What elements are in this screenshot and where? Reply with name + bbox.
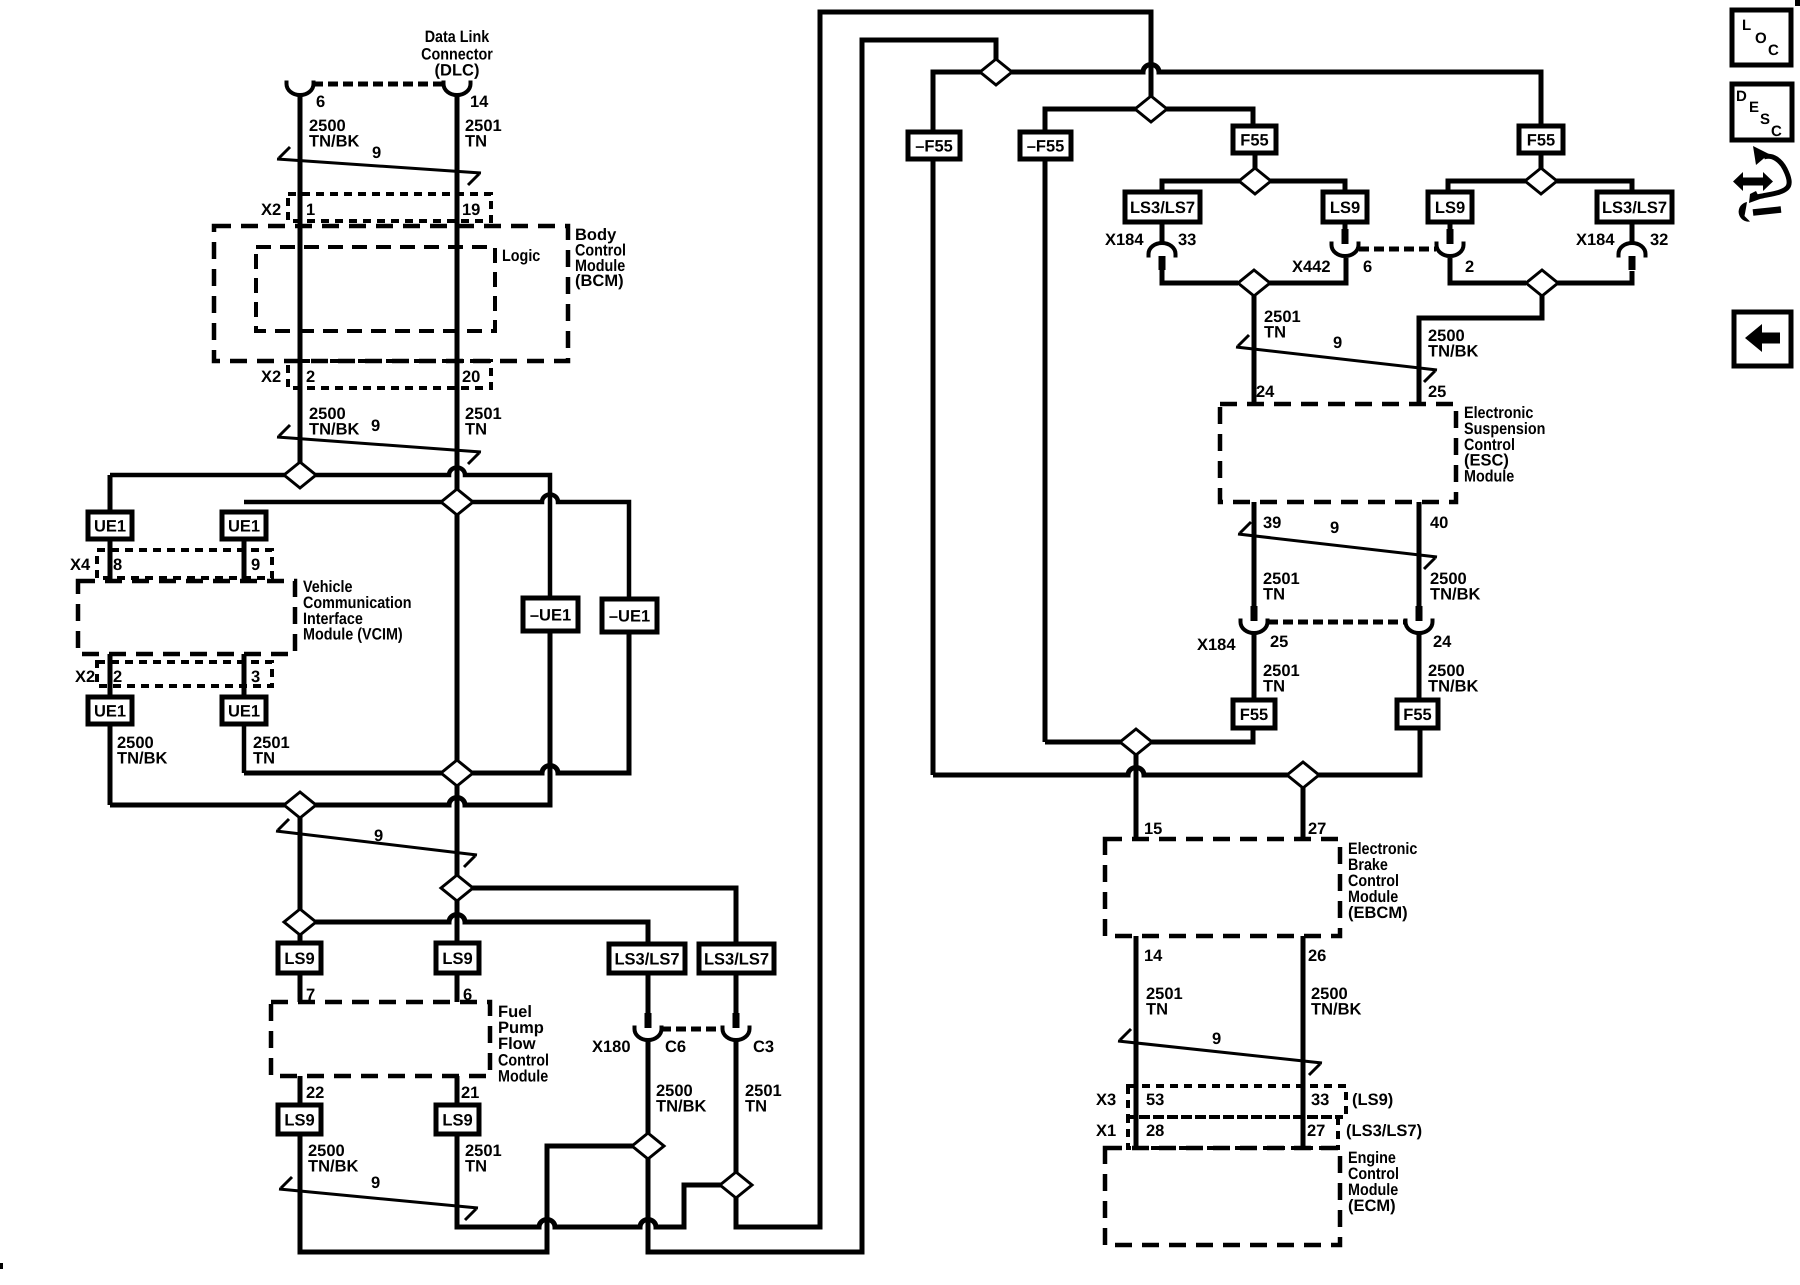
terminator UE1 bottom-right: [222, 697, 266, 724]
junction diamond 2501 bus: [441, 489, 473, 515]
svg-text:9: 9: [1212, 1030, 1221, 1048]
wire -F55 right drop: [1043, 159, 1048, 742]
pin X442 2: [1437, 229, 1464, 256]
terminator LS3/LS7 right: [699, 944, 774, 973]
wire fuel pump pin 22 to LS9: [298, 1076, 303, 1105]
wire X184-33 to diamond: [1162, 270, 1238, 283]
svg-text:X442: X442: [1292, 258, 1331, 276]
corner mark left-edge: [0, 1263, 3, 1269]
twisted pair symbol 9 (below EBCM): [1118, 1029, 1322, 1075]
junction diamond 2501 lower bus: [441, 760, 473, 786]
wire 2500 loop LS9 to diamond: [300, 1134, 634, 1252]
terminator LS9 top-left: [1323, 192, 1367, 222]
terminator -F55 left: [908, 132, 960, 159]
svg-text:40: 40: [1430, 514, 1448, 532]
wire 2501 branch to LS3/LS7 right: [457, 888, 736, 944]
module Electronic Brake Control Module (EBCM) box: [1105, 839, 1340, 936]
wire UE1 right to VCIM pin 9: [242, 539, 247, 581]
terminator UE1 top-right: [222, 512, 266, 539]
wire EBCM bus 2500 (hop over 2501): [933, 728, 1420, 775]
wire EBCM pin 14 to ECM: [1134, 936, 1139, 1148]
connector X1 box (ECM): [1128, 1117, 1338, 1148]
junction diamond below F55 left: [1239, 168, 1271, 194]
svg-text:21: 21: [461, 1084, 479, 1102]
svg-text:UE1: UE1: [228, 517, 260, 535]
svg-text:X184: X184: [1576, 231, 1615, 249]
svg-text:LS9: LS9: [442, 950, 472, 968]
twisted pair symbol 9 (below ESC): [1238, 519, 1437, 569]
wire 2501 vertical to LS branch: [455, 503, 460, 773]
wire bus 2501 UE1 to -UE1 right (hop over x550): [242, 724, 247, 773]
module Electronic Suspension Control (ESC) box: [1220, 404, 1456, 502]
svg-text:LS9: LS9: [284, 1111, 314, 1129]
twisted pair symbol 9 (above ESC): [1236, 334, 1437, 382]
svg-text:X180: X180: [592, 1038, 631, 1056]
connector X2 row2 box: [288, 361, 491, 388]
connector X4 box (VCIM): [97, 550, 272, 578]
svg-text:2: 2: [113, 668, 122, 686]
svg-text:C: C: [1771, 123, 1782, 140]
svg-text:X184: X184: [1197, 636, 1236, 654]
module Vehicle Communication Interface Module (VCIM) box: [78, 581, 295, 654]
svg-text:LS9: LS9: [442, 1111, 472, 1129]
terminator LS9 below fuel pump right: [436, 1105, 479, 1134]
wire bus 2501 lower run: [244, 631, 629, 773]
wire bus 2500 drop to UE1 left: [108, 475, 113, 512]
wire LS3/LS7 right to X180 C3: [734, 973, 739, 1013]
svg-text:Logic: Logic: [502, 247, 540, 265]
svg-text:53: 53: [1146, 1091, 1164, 1109]
terminator -F55 right: [1020, 132, 1071, 159]
pin X184 32: [1619, 243, 1646, 270]
junction diamond 2500 TN/BK (top): [1526, 270, 1558, 296]
svg-text:8: 8: [113, 556, 122, 574]
pin X184 33: [1149, 243, 1176, 270]
junction diamond top 2501 bus: [1135, 96, 1167, 122]
svg-text:X2: X2: [75, 668, 95, 686]
svg-text:E: E: [1749, 99, 1759, 116]
icon DESC box: [1732, 84, 1792, 140]
wire 2501 X180 wire down through diamond: [736, 12, 1151, 1227]
junction diamond EBCM 2500: [1287, 762, 1319, 788]
module Engine Control Module (ECM) box: [1105, 1148, 1340, 1245]
pin X184 24: [1406, 606, 1433, 633]
svg-text:LS9: LS9: [284, 950, 314, 968]
svg-text:(LS9): (LS9): [1352, 1091, 1393, 1109]
connector DLC dashed link: [313, 82, 444, 87]
wire X184-25 to F55: [1252, 633, 1257, 700]
wire 2500 TN/BK diamond to ESC pin 25: [1419, 283, 1542, 404]
svg-text:25: 25: [1428, 383, 1446, 401]
svg-text:3: 3: [251, 668, 260, 686]
junction diamond 2500 lower bus: [284, 792, 316, 818]
svg-text:LS9: LS9: [1435, 199, 1465, 217]
wire 2500 TN/BK DLC pin6 to junction: [298, 95, 303, 475]
terminator LS3/LS7 top-right: [1597, 192, 1672, 222]
svg-text:X184: X184: [1105, 231, 1144, 249]
wire LS9 to X442 pin 6: [1343, 222, 1348, 229]
wire top bus -F55 right to F55 left: [1045, 109, 1253, 132]
terminator F55 top-right: [1519, 126, 1563, 153]
wire VCIM pin 3 to UE1: [242, 654, 247, 697]
corner mark top-right: [1795, 0, 1800, 6]
twisted pair symbol 9 (below VCIM): [276, 819, 477, 867]
svg-text:25: 25: [1270, 633, 1288, 651]
pin DLC terminal 6: [287, 81, 314, 96]
svg-text:X3: X3: [1096, 1091, 1116, 1109]
svg-text:33: 33: [1311, 1091, 1329, 1109]
svg-text:2: 2: [306, 368, 315, 386]
svg-text:24: 24: [1256, 383, 1275, 401]
connector X2 row1 box: [288, 194, 491, 221]
svg-text:–F55: –F55: [1027, 137, 1065, 155]
wire bus 2500 to UE1 and -UE1 (hop over 2501): [110, 468, 550, 598]
svg-text:(DLC): (DLC): [435, 62, 480, 80]
pin X184 25: [1241, 606, 1268, 633]
wire fuel pump pin 21 to LS9: [455, 1076, 460, 1105]
wire ESC pin 39 down: [1252, 502, 1257, 606]
module Fuel Pump Flow Control Module box: [271, 1002, 490, 1076]
wire 2500 vertical diamond to LS9: [298, 805, 303, 943]
svg-text:6: 6: [316, 93, 325, 111]
terminator -UE1 right: [602, 599, 657, 632]
svg-text:F55: F55: [1240, 706, 1268, 724]
svg-text:F55: F55: [1527, 131, 1555, 149]
connector X180 dashed link: [661, 1027, 723, 1032]
svg-text:C6: C6: [665, 1038, 686, 1056]
connector X2 box (VCIM): [97, 662, 272, 686]
svg-text:9: 9: [1333, 334, 1342, 352]
svg-text:19: 19: [462, 201, 480, 219]
svg-text:LS3/LS7: LS3/LS7: [1130, 199, 1195, 217]
terminator F55 top-left: [1233, 126, 1276, 153]
terminator LS9 fuel-pump left: [278, 943, 321, 973]
terminator -UE1 left: [523, 598, 578, 631]
svg-text:UE1: UE1: [228, 702, 260, 720]
svg-text:X2: X2: [261, 201, 281, 219]
wire -F55 left drop to EBCM bus: [931, 159, 936, 775]
svg-text:LS3/LS7: LS3/LS7: [1602, 199, 1667, 217]
wire diamond to X184 pin 32: [1542, 271, 1632, 283]
terminator F55 mid-right: [1397, 700, 1438, 728]
BCM Logic inner box: [256, 247, 495, 331]
svg-text:(LS3/LS7): (LS3/LS7): [1346, 1122, 1422, 1140]
wire X442-6 to diamond: [1254, 258, 1346, 283]
pin X442 6: [1332, 229, 1359, 256]
svg-text:20: 20: [462, 368, 480, 386]
svg-text:1: 1: [306, 201, 315, 219]
wire bus 2501 to UE1 and -UE1 (hop over x550): [244, 495, 629, 600]
svg-text:LS3/LS7: LS3/LS7: [704, 950, 769, 968]
svg-text:15: 15: [1144, 820, 1162, 838]
wire EBCM pin 26 to ECM: [1301, 936, 1306, 1148]
icon troubleshooting arrows and wrench: [1733, 146, 1789, 222]
wire top bus to F55 far right (hop over x1151): [996, 65, 1541, 127]
pin X180 C3: [723, 1013, 750, 1040]
terminator LS9 fuel-pump right: [436, 943, 479, 973]
svg-text:Data Link: Data Link: [425, 28, 490, 46]
terminator LS9 top-right: [1428, 192, 1472, 222]
svg-text:27: 27: [1307, 1122, 1325, 1140]
svg-text:X1: X1: [1096, 1122, 1116, 1140]
svg-text:UE1: UE1: [94, 517, 126, 535]
svg-text:D: D: [1736, 88, 1747, 105]
wire 2501 loop LS9 to diamond (hops): [457, 1134, 722, 1227]
svg-text:24: 24: [1433, 633, 1452, 651]
wire EBCM pin 27 drop: [1301, 775, 1306, 839]
svg-text:C: C: [1768, 42, 1779, 59]
pin DLC terminal 14: [444, 81, 471, 96]
svg-text:S: S: [1760, 111, 1770, 128]
wire LS9 to X442 pin 2: [1448, 222, 1453, 229]
svg-text:9: 9: [372, 144, 381, 162]
wire 2501 TN DLC pin14 down to junction: [455, 95, 460, 503]
wire LS3/LS7 to X184 pin 33: [1160, 222, 1165, 244]
svg-text:LS9: LS9: [1330, 199, 1360, 217]
svg-text:C3: C3: [753, 1038, 774, 1056]
svg-text:33: 33: [1178, 231, 1196, 249]
wire F55 left split: [1162, 153, 1345, 192]
svg-text:EngineControlModule(ECM): EngineControlModule(ECM): [1348, 1149, 1399, 1215]
icon back arrow box: [1734, 312, 1791, 366]
svg-text:22: 22: [306, 1084, 324, 1102]
svg-text:39: 39: [1263, 514, 1281, 532]
junction diamond EBCM 2501: [1120, 729, 1152, 755]
module Body Control Module (BCM) box: [214, 226, 568, 361]
wire 2501 down to LS9 (mid): [455, 888, 460, 943]
terminator UE1 bottom-left: [88, 697, 132, 724]
svg-text:9: 9: [251, 556, 260, 574]
svg-text:14: 14: [470, 93, 489, 111]
twisted pair symbol 9 (below BCM): [277, 417, 481, 464]
junction diamond 2500 bottom: [632, 1133, 664, 1159]
junction diamond 2501 TN (top): [1238, 270, 1270, 296]
terminator LS3/LS7 left: [609, 944, 685, 973]
wire F55 right split: [1448, 153, 1632, 192]
wire LS3/LS7 left to X180 C6: [646, 973, 651, 1013]
svg-text:26: 26: [1308, 947, 1326, 965]
svg-text:–UE1: –UE1: [530, 606, 571, 624]
svg-text:L: L: [1742, 17, 1751, 34]
svg-text:9: 9: [371, 1174, 380, 1192]
wire X184-24 to F55: [1417, 633, 1422, 700]
svg-text:32: 32: [1650, 231, 1668, 249]
svg-text:9: 9: [371, 417, 380, 435]
wire EBCM bus 2501: [1045, 728, 1253, 742]
junction diamond below F55 right: [1525, 168, 1557, 194]
svg-text:LS3/LS7: LS3/LS7: [614, 950, 679, 968]
junction diamond 2501 LS branch: [441, 875, 473, 901]
svg-text:X2: X2: [261, 368, 281, 386]
wire X442-2 to diamond: [1450, 258, 1526, 283]
svg-text:O: O: [1755, 30, 1767, 47]
pin X180 C6: [635, 1013, 662, 1040]
wire 2501 vertical diamond to diamond: [455, 773, 460, 888]
wire top bus to -F55 left: [933, 72, 996, 132]
svg-text:28: 28: [1146, 1122, 1164, 1140]
svg-text:14: 14: [1144, 947, 1163, 965]
wire EBCM pin 15 drop: [1134, 742, 1139, 839]
svg-text:6: 6: [1363, 258, 1372, 276]
wire VCIM pin 2 to UE1: [108, 654, 113, 697]
wire UE1 left to VCIM pin 8: [108, 539, 113, 581]
svg-text:X4: X4: [70, 556, 91, 574]
wire LS9 to fuel pump pin 7: [298, 973, 303, 1002]
wire bus 2500 lower run (hop over 2501): [110, 631, 550, 805]
wire LS3/LS7 to X184 pin 32: [1630, 222, 1635, 244]
terminator LS3/LS7 top-left: [1125, 192, 1200, 222]
wire 2500 X180 wire down through diamond: [648, 40, 996, 1252]
svg-text:9: 9: [1330, 519, 1339, 537]
svg-text:27: 27: [1308, 820, 1326, 838]
twisted pair symbol 9 (DLC): [277, 144, 481, 185]
wire ESC pin 40 down: [1417, 502, 1422, 606]
connector X184 row2 dashed link: [1268, 620, 1405, 625]
terminator UE1 top-left: [88, 512, 132, 539]
svg-text:F55: F55: [1403, 706, 1431, 724]
junction diamond 2500 LS branch: [284, 909, 316, 935]
wire bus 2500 UE1 to -UE1 left: [108, 724, 113, 805]
wire LS9 to fuel pump pin 6: [455, 973, 460, 1002]
wire 2501 TN diamond to ESC pin 24: [1252, 283, 1257, 404]
svg-text:UE1: UE1: [94, 702, 126, 720]
svg-text:2: 2: [1465, 258, 1474, 276]
terminator F55 mid-left: [1233, 700, 1275, 728]
terminator LS9 below fuel pump left: [278, 1105, 321, 1134]
junction diamond 2500 bus: [284, 462, 316, 488]
junction diamond 2501 bottom: [720, 1172, 752, 1198]
junction diamond top 2500 bus: [980, 59, 1012, 85]
twisted pair symbol 9 (below fuel pump): [279, 1174, 478, 1220]
svg-text:–F55: –F55: [915, 137, 953, 155]
svg-text:F55: F55: [1240, 131, 1268, 149]
connector X442 dashed link: [1359, 247, 1436, 252]
connector X3 box (ECM): [1128, 1086, 1346, 1117]
svg-text:9: 9: [374, 827, 383, 845]
svg-text:–UE1: –UE1: [609, 607, 650, 625]
wire 2500 branch to LS3/LS7 left (hop over 2501): [300, 915, 648, 944]
icon LOC box: [1732, 10, 1791, 65]
